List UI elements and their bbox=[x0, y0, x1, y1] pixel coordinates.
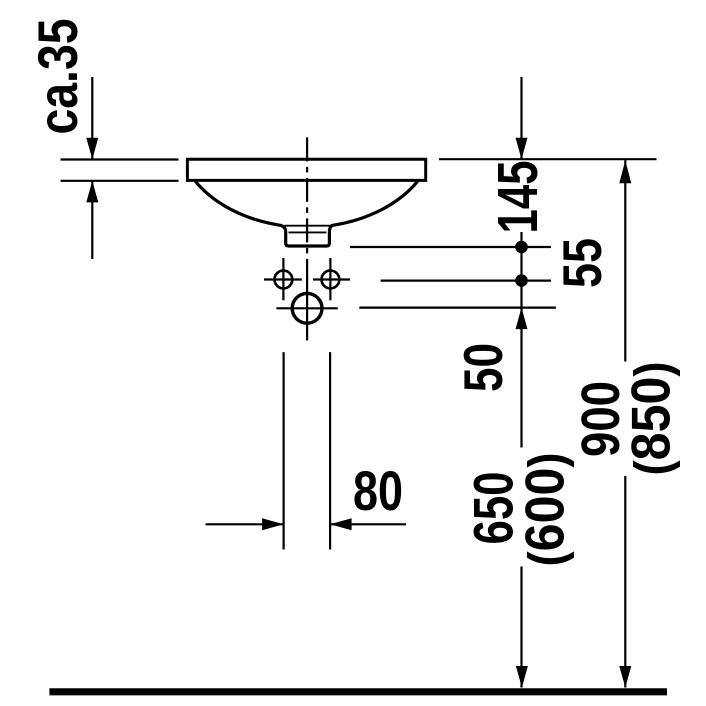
dimension line through dots bbox=[520, 232, 522, 308]
faucet hole left bbox=[275, 271, 293, 289]
arrowhead 900 up bbox=[619, 160, 631, 183]
dimension line 80 right bbox=[330, 523, 406, 525]
svg-text:145: 145 bbox=[486, 161, 550, 234]
drain inner line bbox=[289, 231, 327, 233]
worktop bottom line bbox=[61, 180, 179, 182]
dimension line ca.35 upper bbox=[91, 77, 93, 159]
dimension dot drain bottom bbox=[515, 241, 528, 254]
dimension line 145 upper bbox=[520, 77, 522, 159]
crosshair faucet left vertical bbox=[282, 258, 284, 300]
extension line drain center level bbox=[359, 307, 556, 309]
arrowhead 650 down bbox=[516, 666, 528, 688]
dimension dot faucet level bbox=[515, 274, 528, 287]
svg-text:80: 80 bbox=[353, 459, 403, 522]
crosshair faucet right horizontal bbox=[313, 278, 350, 280]
svg-text:(600): (600) bbox=[514, 453, 576, 567]
svg-text:55: 55 bbox=[551, 238, 613, 288]
drain flange top line bbox=[284, 225, 331, 227]
svg-text:50: 50 bbox=[452, 343, 514, 392]
extension line 80 right bbox=[329, 352, 331, 549]
svg-text:ca.35: ca.35 bbox=[26, 19, 89, 135]
arrowhead 900 down bbox=[619, 666, 631, 688]
crosshair drain hole horizontal bbox=[276, 307, 337, 309]
extension line drain bottom level bbox=[350, 246, 551, 248]
extension line faucet level bbox=[381, 280, 551, 282]
worktop top line bbox=[61, 158, 179, 160]
arrowhead ca.35 down bbox=[86, 138, 98, 160]
dimension line 650 lower bbox=[520, 567, 522, 688]
arrowhead 145 down bbox=[516, 138, 528, 160]
drain hole circle bbox=[292, 293, 322, 323]
extension line 80 left bbox=[283, 352, 285, 549]
centerline vertical dash-dot bbox=[306, 137, 308, 280]
arrowhead 80 left-pointing bbox=[330, 518, 352, 530]
svg-text:(850): (850) bbox=[620, 362, 682, 476]
arrowhead ca.35 up bbox=[86, 181, 98, 203]
basin rim bbox=[187, 159, 425, 180]
dimension line ca.35 lower bbox=[91, 181, 93, 259]
dimension line 80 left bbox=[206, 523, 284, 525]
arrowhead 50 up bbox=[516, 308, 528, 330]
crosshair faucet right vertical bbox=[329, 258, 331, 300]
dimension line 900 lower bbox=[624, 476, 626, 688]
basin bowl and drain outline bbox=[195, 181, 417, 246]
extension line worktop level right bbox=[439, 158, 657, 160]
faucet hole right bbox=[322, 271, 340, 289]
dimension line 900 upper bbox=[624, 160, 626, 361]
crosshair faucet left horizontal bbox=[264, 278, 302, 280]
arrowhead 80 right-pointing bbox=[262, 518, 284, 530]
dimension line 50-650 bbox=[520, 308, 522, 448]
floor line bbox=[49, 688, 667, 695]
centerline solid through drain hole bbox=[306, 278, 308, 340]
